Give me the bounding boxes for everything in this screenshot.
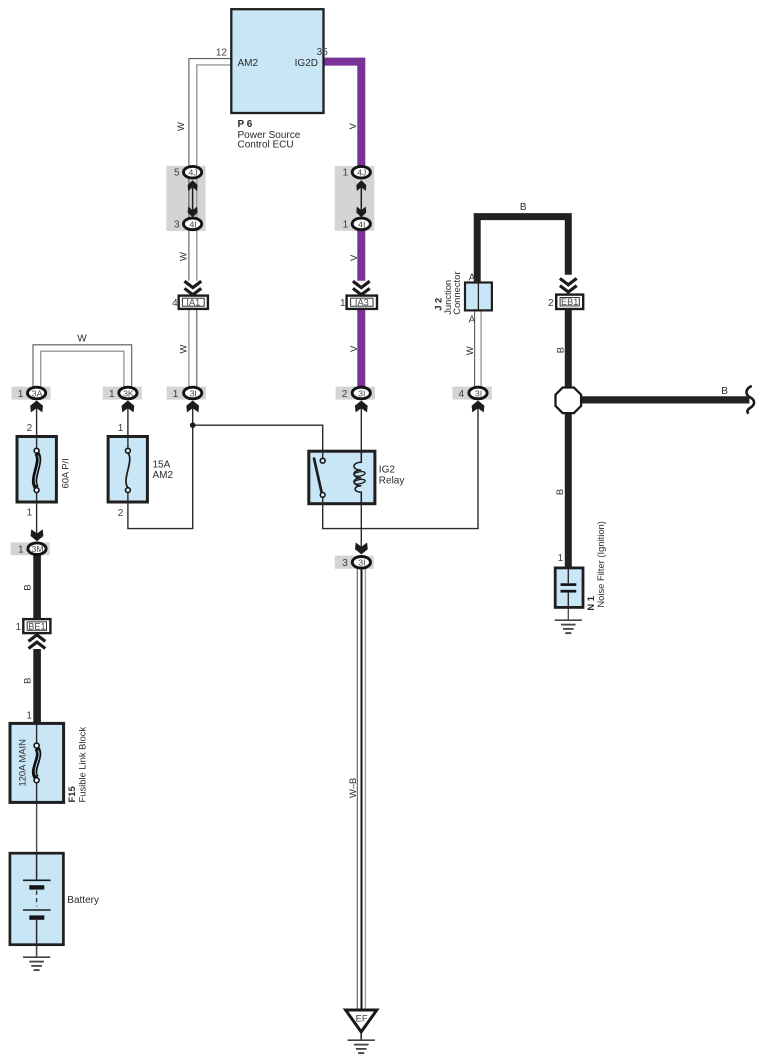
svg-text:35: 35 — [317, 47, 329, 58]
connector 1-4I right oval — [352, 218, 370, 230]
svg-text:1: 1 — [18, 389, 24, 400]
svg-text:1: 1 — [343, 168, 349, 179]
wire from connector 3K down to fuse 15A pin 1 — [127, 404, 129, 437]
svg-text:IG2: IG2 — [379, 465, 396, 476]
svg-text:W: W — [464, 346, 475, 355]
svg-text:3I: 3I — [190, 388, 197, 398]
svg-text:2: 2 — [118, 508, 124, 519]
svg-text:5: 5 — [174, 168, 180, 179]
svg-text:EF: EF — [356, 1013, 368, 1023]
svg-text:1: 1 — [118, 423, 124, 434]
svg-text:2: 2 — [342, 389, 348, 400]
wire W-B from connector 3-3I down to ground EF (double line with black tracer) — [357, 569, 365, 1009]
junction connector IA1 box — [172, 296, 208, 310]
svg-text:Connector: Connector — [451, 272, 462, 315]
svg-text:Noise Filter (Ignition): Noise Filter (Ignition) — [595, 521, 606, 608]
svg-text:Battery: Battery — [67, 895, 99, 906]
svg-text:60A P/I: 60A P/I — [59, 458, 70, 488]
wire W from junction IA1 down to connector 1-3I (double line) — [189, 309, 197, 388]
connector block 4J/4I right gray backdrop — [335, 166, 375, 231]
wire from fuse 60A pin 1 down to connector 3M — [36, 502, 38, 534]
wire B thick from junction connector J2 pin A up and over to connector EB1 — [477, 217, 568, 283]
wire B thick from connector EB1 down to octagon junction — [565, 309, 572, 396]
wire V (violet) from connector 4I down to junction IA3 — [357, 224, 365, 281]
svg-text:B: B — [721, 386, 728, 397]
svg-text:1: 1 — [16, 622, 22, 633]
svg-text:B: B — [554, 347, 565, 353]
octagon junction node — [556, 388, 582, 414]
chevron arrows into junction IA3 — [353, 281, 370, 295]
page break continuation symbol — [746, 386, 754, 414]
junction node dot — [190, 422, 196, 428]
noise filter N1 (capacitor) — [555, 568, 583, 608]
fuse 15A AM2 — [108, 437, 147, 503]
wire from noise filter N1 down to ground — [567, 607, 569, 620]
svg-text:EB1: EB1 — [561, 297, 578, 307]
ground EF triangle — [346, 1010, 377, 1032]
svg-text:12: 12 — [216, 47, 228, 58]
wire from battery down to ground — [36, 945, 38, 957]
ECU P6 box — [231, 9, 323, 113]
connector 1-4J right oval — [352, 166, 370, 178]
wire B thick from octagon junction to right page break — [580, 396, 749, 403]
svg-text:W: W — [177, 252, 188, 261]
svg-text:3: 3 — [174, 219, 180, 230]
wire W from ECU pin 12 AM2 down to connector 4I (double line) — [189, 59, 231, 281]
wire from connector 1-3I down to junction node — [192, 404, 194, 425]
battery — [10, 853, 64, 945]
junction connector J2 box — [465, 283, 492, 311]
svg-text:Control ECU: Control ECU — [238, 140, 294, 151]
connector BE1 box — [16, 619, 51, 633]
connector EB1 box — [548, 295, 583, 309]
ground symbol below EF — [348, 1040, 375, 1053]
svg-text:3K: 3K — [123, 388, 134, 398]
svg-text:B: B — [554, 489, 565, 495]
connector 3-4I left oval — [184, 218, 202, 230]
wire W from junction connector J2 down to connector 4-3I (double line) — [475, 310, 482, 387]
wire B from connector 3M down to connector BE1 (thick) — [33, 556, 41, 620]
wire from connector 2-3I down to relay IG2 coil terminal — [360, 404, 362, 451]
svg-text:W: W — [175, 122, 186, 131]
svg-text:1: 1 — [27, 507, 33, 518]
svg-text:4J: 4J — [357, 168, 366, 178]
wire from fusible link block F15 down to battery — [36, 802, 38, 853]
svg-text:3A: 3A — [32, 388, 43, 398]
svg-text:3I: 3I — [475, 388, 482, 398]
svg-text:1: 1 — [173, 389, 179, 400]
svg-text:1: 1 — [558, 553, 564, 564]
svg-text:BE1: BE1 — [28, 622, 45, 632]
chevron arrows out of BE1 — [29, 635, 46, 649]
svg-text:1: 1 — [26, 711, 32, 722]
connector 4J/4I right internal arrow — [360, 184, 362, 213]
svg-text:V: V — [347, 122, 358, 129]
wire B thick from octagon junction down to noise filter N1 pin 1 — [565, 404, 572, 568]
wire V (violet) from junction IA3 down to connector 2-3I — [357, 309, 365, 390]
fusible link block F15 — [10, 723, 64, 802]
ground symbol below noise filter N1 — [555, 620, 582, 633]
svg-text:W: W — [177, 345, 188, 354]
svg-text:P 6: P 6 — [238, 119, 253, 130]
connector 4J/4I left internal arrow — [192, 184, 194, 213]
junction connector IA3 box — [340, 296, 377, 310]
wire B from connector BE1 down to fusible link block F15 pin 1 (thick) — [33, 649, 41, 723]
svg-text:IG2D: IG2D — [295, 58, 318, 69]
connector 3-3I — [335, 543, 374, 570]
wire W loop between connectors 3A and 3K (double line) — [33, 345, 132, 388]
svg-text:V: V — [348, 254, 359, 261]
svg-text:1: 1 — [18, 545, 24, 556]
ground symbol below battery — [23, 957, 50, 970]
svg-text:Fusible Link Block: Fusible Link Block — [76, 727, 87, 803]
svg-text:A: A — [469, 315, 476, 326]
wire from relay IG2 coil terminal down to connector 3-3I — [360, 504, 362, 547]
svg-text:Relay: Relay — [379, 475, 405, 486]
svg-text:15A: 15A — [153, 459, 171, 470]
svg-text:1: 1 — [340, 298, 346, 309]
svg-text:3M: 3M — [31, 544, 43, 554]
wire from junction node to relay IG2 switch terminal — [193, 425, 323, 451]
connector 4-3I — [452, 387, 491, 413]
svg-text:AM2: AM2 — [153, 470, 174, 481]
wire from relay IG2 switch terminal to connector 4-3I — [323, 404, 478, 529]
connector 1-3A — [12, 387, 51, 413]
svg-text:IA1: IA1 — [186, 298, 200, 308]
svg-text:4: 4 — [459, 389, 465, 400]
connector 5-4J left oval — [184, 166, 202, 178]
svg-text:IA3: IA3 — [355, 298, 369, 308]
svg-text:2: 2 — [27, 423, 33, 434]
svg-text:W–B: W–B — [347, 778, 358, 798]
svg-text:W: W — [77, 333, 87, 344]
svg-text:3I: 3I — [358, 558, 365, 568]
connector block 4J/4I left gray backdrop — [166, 166, 205, 231]
svg-text:4I: 4I — [358, 219, 365, 229]
svg-text:120A MAIN: 120A MAIN — [17, 739, 28, 786]
wire from connector 3A down to fuse 60A pin 2 — [36, 404, 38, 437]
chevron arrows into junction IA1 — [184, 281, 201, 295]
svg-text:B: B — [22, 678, 33, 684]
chevron arrows into EB1 — [560, 278, 577, 292]
wire V (violet) from ECU pin 35 IG2D down to connector 4J — [324, 62, 362, 172]
svg-text:3: 3 — [342, 558, 348, 569]
wire from fuse 15A pin 2 to junction node below connector 1-3I — [128, 426, 193, 529]
svg-text:1: 1 — [343, 219, 349, 230]
svg-text:3I: 3I — [358, 388, 365, 398]
connector 1-3I — [167, 387, 206, 413]
svg-text:2: 2 — [548, 298, 554, 309]
connector 1-3M — [11, 529, 50, 555]
svg-text:1: 1 — [109, 389, 115, 400]
svg-text:4I: 4I — [189, 219, 196, 229]
svg-text:4: 4 — [172, 298, 178, 309]
fuse 60A P/I — [17, 437, 56, 503]
svg-text:B: B — [520, 202, 527, 213]
svg-text:V: V — [348, 345, 359, 352]
connector 2-3I — [336, 387, 375, 413]
connector 1-3K — [103, 387, 142, 413]
svg-text:B: B — [22, 584, 33, 590]
relay IG2 — [309, 451, 375, 504]
svg-text:4J: 4J — [189, 168, 198, 178]
svg-text:AM2: AM2 — [238, 58, 259, 69]
